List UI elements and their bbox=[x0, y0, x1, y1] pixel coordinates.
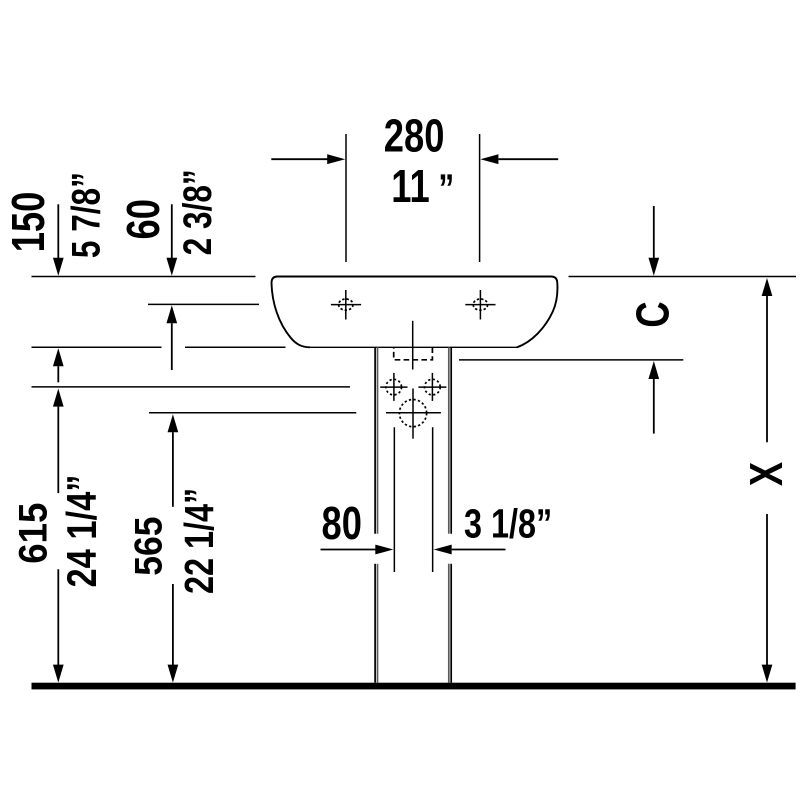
svg-text:80: 80 bbox=[321, 497, 361, 549]
faucet hole left dotted circle bbox=[339, 299, 353, 310]
dim 80 arrow left bbox=[321, 545, 394, 555]
svg-text:X: X bbox=[740, 462, 792, 487]
dim 150 arrow up bbox=[53, 348, 64, 382]
pedestal left edge gray bbox=[377, 347, 379, 682]
dashed recess box bbox=[394, 348, 433, 360]
svg-text:”: ” bbox=[438, 165, 454, 210]
dim X arrow down bbox=[762, 514, 773, 683]
dim 60 arrow up bbox=[166, 305, 177, 370]
basin bottom edge bbox=[308, 346, 518, 348]
basin outline bbox=[272, 277, 558, 348]
svg-text:2 3/8”: 2 3/8” bbox=[174, 169, 219, 255]
level line basin bottom segment a bbox=[32, 346, 162, 348]
mounting hole left cross bbox=[380, 373, 407, 401]
mounting hole right cross bbox=[418, 373, 446, 401]
dim 565 arrow up bbox=[168, 414, 179, 507]
svg-text:22 1/4”: 22 1/4” bbox=[177, 488, 222, 594]
mounting hole left dotted circle bbox=[386, 379, 402, 395]
drain hole large dotted circle bbox=[399, 400, 426, 427]
svg-text:565: 565 bbox=[126, 517, 170, 576]
level line C bottom bbox=[459, 359, 683, 361]
pedestal left edge black bbox=[374, 347, 376, 682]
drain pipe right line bbox=[432, 427, 434, 572]
dim C arrow down bbox=[648, 206, 659, 276]
drain hole cross bbox=[386, 389, 441, 439]
level line rim left bbox=[32, 276, 256, 278]
mounting hole right dotted circle bbox=[425, 379, 441, 395]
level line mounting holes bbox=[32, 386, 351, 388]
svg-text:11: 11 bbox=[391, 160, 429, 212]
dim 150 arrow down bbox=[53, 204, 64, 275]
drain pipe left line bbox=[393, 427, 395, 572]
svg-text:24 1/4”: 24 1/4” bbox=[59, 475, 106, 588]
dim 615 arrow up bbox=[53, 389, 64, 494]
floor line bbox=[32, 683, 796, 690]
svg-text:60: 60 bbox=[117, 199, 169, 239]
faucet hole left cross bbox=[331, 290, 361, 320]
svg-text:5 7/8”: 5 7/8” bbox=[63, 172, 108, 258]
faucet hole right cross bbox=[465, 290, 495, 320]
dim 280 arrow right bbox=[480, 154, 558, 164]
svg-text:280: 280 bbox=[384, 109, 445, 161]
pedestal right edge black bbox=[450, 347, 452, 682]
dim 80 arrow right bbox=[434, 545, 506, 555]
dim 60 arrow down bbox=[166, 204, 177, 275]
dim 615 arrow down bbox=[53, 569, 64, 682]
faucet hole right dotted circle bbox=[473, 299, 487, 310]
svg-text:3 1/8”: 3 1/8” bbox=[464, 501, 552, 546]
level line drain bbox=[149, 412, 356, 414]
dim X arrow up bbox=[762, 278, 773, 442]
dim 280 extension line left bbox=[345, 134, 347, 262]
dim 280 extension line right bbox=[479, 134, 481, 262]
centerline below basin bbox=[412, 321, 414, 370]
svg-text:150: 150 bbox=[2, 192, 54, 253]
level line rim right bbox=[569, 276, 797, 278]
svg-text:615: 615 bbox=[11, 503, 56, 564]
dim 280 arrow left bbox=[271, 154, 345, 164]
svg-text:C: C bbox=[626, 301, 678, 327]
dim 565 arrow down bbox=[168, 584, 179, 683]
dim C arrow up bbox=[648, 361, 659, 434]
level line basin bottom segment b bbox=[185, 346, 286, 348]
level line faucet bbox=[148, 303, 259, 305]
pedestal right edge gray bbox=[448, 347, 450, 682]
